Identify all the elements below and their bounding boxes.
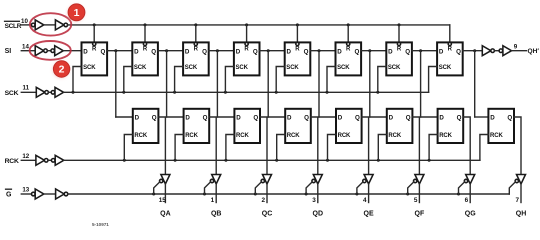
- wire output QF: [418, 184, 420, 203]
- svg-text:15: 15: [159, 197, 167, 204]
- wire enable tap 4: [306, 182, 312, 194]
- svg-text:QH: QH: [516, 211, 527, 218]
- junction SCLR-R5: [296, 23, 299, 26]
- svg-text:QA: QA: [160, 211, 171, 218]
- svg-text:SCLR: SCLR: [5, 23, 22, 30]
- wire QF to next D: [361, 50, 386, 52]
- wire enable tap 1: [154, 182, 160, 194]
- wire QE to next D: [310, 50, 335, 52]
- junction G-bar tap 3: [254, 193, 257, 196]
- svg-text:Q: Q: [354, 48, 359, 55]
- pin 13 G-bar: [22, 187, 29, 194]
- flip-flop shift FF1: [82, 42, 108, 75]
- junction G-bar tap 7: [457, 193, 460, 196]
- flip-flop shift FF5: [285, 42, 311, 75]
- svg-text:Q: Q: [304, 48, 309, 55]
- svg-text:9: 9: [514, 43, 518, 50]
- svg-text:D: D: [185, 48, 190, 55]
- wire RFF5 Q to buffer: [362, 117, 369, 175]
- svg-text:D: D: [236, 48, 241, 55]
- svg-text:QE: QE: [364, 211, 374, 218]
- wire RCK clock tap RFF3: [226, 135, 235, 161]
- junction SCLR-R3: [194, 23, 197, 26]
- net QD label: [313, 211, 324, 218]
- wire output QA: [164, 184, 166, 203]
- svg-text:Q: Q: [253, 115, 258, 122]
- wire enable tap 3: [255, 182, 261, 194]
- pin 15 QA: [159, 197, 167, 204]
- svg-text:QF: QF: [415, 211, 425, 218]
- wire output QD: [317, 184, 319, 203]
- junction QE: [318, 49, 321, 52]
- wire output QH: [520, 184, 522, 203]
- wire QH internal to RCK FF8 D: [475, 116, 489, 118]
- wire G-bar bus: [68, 193, 510, 195]
- svg-text:Q: Q: [507, 115, 512, 122]
- net SCK pin label: [5, 90, 19, 97]
- svg-text:SCK: SCK: [5, 90, 19, 97]
- junction SCLR-R2: [144, 23, 147, 26]
- wire QA drop: [115, 51, 117, 117]
- wire RCK clock tap RFF5: [328, 135, 337, 161]
- svg-text:QB: QB: [211, 211, 222, 218]
- junction G-bar tap 1: [152, 193, 155, 196]
- svg-text:D: D: [185, 115, 190, 122]
- junction RCK-CK2: [174, 159, 177, 162]
- wire SCK clock tap FF5: [276, 67, 285, 93]
- wire RCK clock tap RFF7: [429, 135, 438, 161]
- wire SCLR drop to FF8 R: [449, 25, 451, 43]
- net QF label: [415, 211, 425, 218]
- svg-text:RCK: RCK: [338, 133, 351, 139]
- svg-text:14: 14: [22, 44, 29, 51]
- junction SCK-CK3: [173, 91, 176, 94]
- svg-text:2: 2: [59, 64, 65, 76]
- wire SCK bus: [64, 91, 429, 93]
- wire QH' buffer link: [494, 50, 499, 52]
- svg-text:1: 1: [74, 7, 80, 19]
- wire RFF3 Q to buffer: [260, 117, 267, 175]
- wire QD to RCK FF4 D: [268, 116, 285, 118]
- svg-text:SI: SI: [5, 48, 12, 55]
- wire RCK buffer link: [48, 159, 51, 161]
- svg-text:R: R: [92, 46, 97, 52]
- wire enable tap 7: [459, 182, 465, 194]
- svg-text:SCK: SCK: [439, 65, 452, 71]
- wire output QE: [368, 184, 370, 203]
- inverter U1a (SCLR): [31, 20, 43, 30]
- inverter U6b (QH'): [499, 46, 511, 56]
- junction SCLR-R7: [398, 23, 401, 26]
- tri-state buffer Y2: [210, 175, 220, 184]
- svg-text:D: D: [338, 115, 343, 122]
- pin 5 QF: [414, 197, 418, 204]
- junction G-bar tap 2: [203, 193, 206, 196]
- wire output QB: [215, 184, 217, 203]
- svg-text:D: D: [439, 115, 444, 122]
- wire RFF4 Q to buffer: [311, 117, 318, 175]
- svg-text:3: 3: [312, 197, 316, 204]
- wire output QC: [266, 184, 268, 203]
- svg-text:12: 12: [22, 153, 29, 160]
- wire QC to RCK FF3 D: [217, 116, 234, 118]
- wire QD drop: [267, 51, 269, 117]
- pin 12 RCK: [22, 153, 29, 160]
- tri-state buffer Y4: [312, 175, 322, 184]
- wire SCLR input: [21, 24, 31, 26]
- svg-text:RCK: RCK: [5, 158, 19, 165]
- junction QD: [267, 49, 270, 52]
- junction G-bar tap 4: [305, 193, 308, 196]
- junction SCK-CK4: [224, 91, 227, 94]
- junction QA: [114, 49, 117, 52]
- wire QE to RCK FF5 D: [319, 116, 336, 118]
- note drawing number: [92, 222, 109, 227]
- svg-text:SCK: SCK: [134, 65, 147, 71]
- svg-text:R: R: [346, 46, 351, 52]
- junction QG: [419, 49, 422, 52]
- pin 2 QC: [261, 197, 265, 204]
- flip-flop shift FF6: [336, 42, 362, 75]
- svg-text:RCK: RCK: [490, 133, 503, 139]
- svg-text:RCK: RCK: [134, 133, 147, 139]
- wire RFF8 Q to buffer: [514, 117, 521, 175]
- wire G-bar input: [21, 193, 33, 195]
- svg-text:D: D: [439, 48, 444, 55]
- tri-state buffer Y7: [464, 175, 474, 184]
- wire QA to RCK FF1 D: [116, 116, 133, 118]
- svg-text:D: D: [236, 115, 241, 122]
- junction SCK-CK5: [275, 91, 278, 94]
- inverter U5b (G-bar): [56, 189, 68, 199]
- wire RCK clock tap RFF6: [378, 135, 387, 161]
- svg-text:R: R: [194, 46, 199, 52]
- svg-text:RCK: RCK: [185, 133, 198, 139]
- svg-text:QG: QG: [465, 211, 476, 218]
- svg-text:R: R: [244, 46, 249, 52]
- svg-text:D: D: [337, 48, 342, 55]
- annotation badge 2: [53, 61, 70, 79]
- junction RCK-CK7: [428, 159, 431, 162]
- junction RCK-CK3: [224, 159, 227, 162]
- wire SI input: [21, 50, 35, 52]
- flip-flop shift FF7: [386, 42, 412, 75]
- flip-flop shift FF2: [132, 42, 158, 75]
- inverter U2a (SI): [35, 46, 47, 56]
- inverter U4a (RCK): [36, 155, 48, 165]
- wire RFF2 Q to buffer: [209, 117, 216, 175]
- wire QF to RCK FF6 D: [370, 116, 387, 118]
- wire RCK clock tap RFF4: [277, 135, 286, 161]
- net QA label: [160, 211, 171, 218]
- svg-text:5-10971: 5-10971: [92, 222, 109, 227]
- tri-state buffer Y6: [414, 175, 424, 184]
- junction SCK-CK2: [122, 91, 125, 94]
- wire SCK clock tap FF3: [175, 67, 184, 93]
- svg-text:QC: QC: [262, 211, 273, 218]
- wire SCLR drop to FF6 R: [347, 25, 349, 43]
- wire SCK clock tap FF6: [327, 67, 336, 93]
- flip-flop storage RFF2: [184, 109, 210, 143]
- wire QG to RCK FF7 D: [421, 116, 438, 118]
- svg-text:13: 13: [22, 187, 29, 194]
- svg-text:SCK: SCK: [286, 65, 299, 71]
- junction QH internal: [473, 49, 476, 52]
- svg-text:Q: Q: [100, 48, 105, 55]
- svg-text:Q: Q: [456, 48, 461, 55]
- net QG label: [465, 211, 476, 218]
- junction QF: [368, 49, 371, 52]
- svg-text:Q: Q: [304, 115, 309, 122]
- svg-text:Q: Q: [405, 48, 410, 55]
- junction SCK-CK1: [72, 91, 75, 94]
- junction SCK-CK7: [376, 91, 379, 94]
- svg-text:6: 6: [465, 197, 469, 204]
- svg-text:2: 2: [261, 197, 265, 204]
- svg-text:D: D: [490, 115, 495, 122]
- pin 1 QB: [211, 197, 215, 204]
- inverter U4b (RCK): [51, 155, 63, 165]
- inverter U6a (QH'): [482, 46, 494, 56]
- junction G-bar tap 6: [406, 193, 409, 196]
- flip-flop storage RFF3: [234, 109, 260, 143]
- annotation ellipse 1 (SCLR buffers): [30, 13, 71, 35]
- wire RFF1 Q to buffer: [158, 117, 165, 175]
- svg-text:7: 7: [515, 197, 519, 204]
- annotation ellipse 2 (SI buffers): [30, 41, 71, 60]
- inverter U3a (SCK): [36, 87, 48, 97]
- flip-flop storage RFF8: [488, 109, 514, 143]
- svg-text:11: 11: [23, 85, 30, 92]
- pin 10 SCLR: [21, 18, 28, 25]
- wire SCLR drop to FF4 R: [246, 25, 248, 43]
- junction RCK-CK5: [326, 159, 329, 162]
- wire SCLR drop to FF5 R: [296, 25, 298, 43]
- net SI pin label: [5, 48, 12, 55]
- svg-text:D: D: [83, 48, 88, 55]
- wire SCK buffer link: [48, 91, 51, 93]
- wire QC drop: [216, 51, 218, 117]
- wire QF drop: [369, 51, 371, 117]
- wire QA to next D: [107, 50, 132, 52]
- svg-text:Q: Q: [457, 115, 462, 122]
- wire enable tap 8: [509, 182, 515, 194]
- wire enable tap 5: [357, 182, 363, 194]
- svg-text:R: R: [397, 46, 402, 52]
- wire QB to next D: [158, 50, 183, 52]
- pin 14 SI: [22, 44, 29, 51]
- wire QC to next D: [209, 50, 234, 52]
- svg-text:4: 4: [363, 197, 367, 204]
- svg-text:1: 1: [211, 197, 215, 204]
- wire RCK clock tap RFF8: [480, 135, 489, 161]
- net G-bar pin label: [6, 189, 12, 198]
- wire SCK clock tap FF2: [124, 67, 133, 93]
- wire QD to next D: [260, 50, 285, 52]
- svg-text:QD: QD: [313, 211, 324, 218]
- wire enable tap 2: [205, 182, 211, 194]
- net SCLR pin label: [5, 21, 22, 30]
- junction SCLR-R4: [245, 23, 248, 26]
- svg-text:RCK: RCK: [287, 133, 300, 139]
- junction SCK-CK6: [326, 91, 329, 94]
- svg-text:R: R: [143, 46, 148, 52]
- svg-text:G: G: [6, 192, 12, 199]
- wire QB to RCK FF2 D: [167, 116, 184, 118]
- svg-text:SCK: SCK: [185, 65, 198, 71]
- flip-flop storage RFF5: [336, 109, 362, 143]
- svg-text:RCK: RCK: [388, 133, 401, 139]
- wire QG to next D: [412, 50, 437, 52]
- wire SI buffer link: [47, 50, 51, 52]
- junction QC: [216, 49, 219, 52]
- pin 3 QD: [312, 197, 316, 204]
- svg-text:SCK: SCK: [337, 65, 350, 71]
- wire RCK input: [21, 159, 36, 161]
- wire SCK clock tap FF1: [73, 67, 82, 93]
- junction RCK-CK4: [275, 159, 278, 162]
- svg-text:Q: Q: [253, 48, 258, 55]
- pin 9 QH': [514, 43, 518, 50]
- flip-flop storage RFF4: [285, 109, 311, 143]
- flip-flop storage RFF1: [133, 109, 159, 143]
- junction QB: [165, 49, 168, 52]
- net QH label: [516, 211, 527, 218]
- flip-flop shift FF4: [234, 42, 260, 75]
- svg-text:Q: Q: [406, 115, 411, 122]
- pin 6 QG: [465, 197, 469, 204]
- svg-text:Q: Q: [203, 115, 208, 122]
- wire RCK bus: [64, 159, 480, 161]
- inverter U5a (G-bar): [32, 189, 44, 199]
- wire QH' output: [512, 50, 527, 52]
- svg-text:Q: Q: [151, 48, 156, 55]
- svg-text:D: D: [287, 48, 292, 55]
- net QH' label: [528, 48, 540, 55]
- junction SCLR-R1: [93, 23, 96, 26]
- wire SCLR drop to FF2 R: [144, 25, 146, 43]
- wire SCK input: [21, 91, 36, 93]
- wire RFF7 Q to buffer: [463, 117, 470, 175]
- svg-text:R: R: [448, 46, 453, 52]
- inverter U1b (SCLR): [55, 20, 67, 30]
- wire G-bar buffer link: [44, 193, 56, 195]
- tri-state buffer Y1: [160, 175, 170, 184]
- wire SI to FF1 D: [63, 50, 81, 52]
- svg-text:Q: Q: [202, 48, 207, 55]
- svg-text:SCK: SCK: [236, 65, 249, 71]
- svg-text:D: D: [389, 115, 394, 122]
- tri-state buffer Y8: [515, 175, 525, 184]
- net QC label: [262, 211, 273, 218]
- flip-flop storage RFF7: [438, 109, 464, 143]
- wire enable tap 6: [408, 182, 414, 194]
- svg-text:R: R: [295, 46, 300, 52]
- net QE label: [364, 211, 374, 218]
- svg-text:D: D: [134, 48, 139, 55]
- svg-text:D: D: [388, 48, 393, 55]
- svg-text:Q: Q: [152, 115, 157, 122]
- wire SCK clock tap FF8: [429, 67, 438, 93]
- junction RCK-CK1: [123, 159, 126, 162]
- wire SCLR bus: [68, 24, 450, 26]
- svg-text:SCK: SCK: [388, 65, 401, 71]
- svg-text:5: 5: [414, 197, 418, 204]
- wire SCLR drop to FF7 R: [398, 25, 400, 43]
- net QB label: [211, 211, 222, 218]
- svg-text:SCK: SCK: [83, 65, 96, 71]
- svg-text:Q: Q: [355, 115, 360, 122]
- wire output QG: [469, 184, 471, 203]
- svg-text:10: 10: [21, 18, 28, 25]
- inverter U2b (SI): [51, 46, 63, 56]
- net RCK pin label: [5, 158, 19, 165]
- tri-state buffer Y3: [261, 175, 271, 184]
- junction RCK-CK6: [377, 159, 380, 162]
- svg-text:D: D: [287, 115, 292, 122]
- wire QH internal drop: [474, 51, 476, 117]
- wire QE drop: [318, 51, 320, 117]
- pin 4 QE: [363, 197, 367, 204]
- wire SCLR drop to FF1 R: [93, 25, 95, 43]
- junction SCLR-R6: [347, 23, 350, 26]
- flip-flop shift FF3: [183, 42, 209, 75]
- wire QG drop: [420, 51, 422, 117]
- tri-state buffer Y5: [363, 175, 373, 184]
- wire RCK clock tap RFF1: [124, 135, 133, 161]
- wire Q8 to inverters: [463, 50, 483, 52]
- pin 7 QH: [515, 197, 519, 204]
- wire SCK clock tap FF4: [225, 67, 234, 93]
- wire SCLR buffer link: [44, 24, 56, 26]
- junction G-bar tap 5: [355, 193, 358, 196]
- svg-text:D: D: [135, 115, 140, 122]
- svg-text:QH′: QH′: [528, 48, 540, 55]
- wire SCLR drop to FF3 R: [195, 25, 197, 43]
- flip-flop shift FF8: [437, 42, 463, 75]
- svg-text:RCK: RCK: [439, 133, 452, 139]
- wire QB drop: [166, 51, 168, 117]
- wire RCK clock tap RFF2: [175, 135, 184, 161]
- pin 11 SCK: [23, 85, 30, 92]
- annotation badge 1: [67, 4, 85, 22]
- svg-text:RCK: RCK: [236, 133, 249, 139]
- flip-flop storage RFF6: [387, 109, 413, 143]
- inverter U3b (SCK): [51, 87, 63, 97]
- wire RFF6 Q to buffer: [412, 117, 419, 175]
- wire SCK clock tap FF7: [378, 67, 387, 93]
